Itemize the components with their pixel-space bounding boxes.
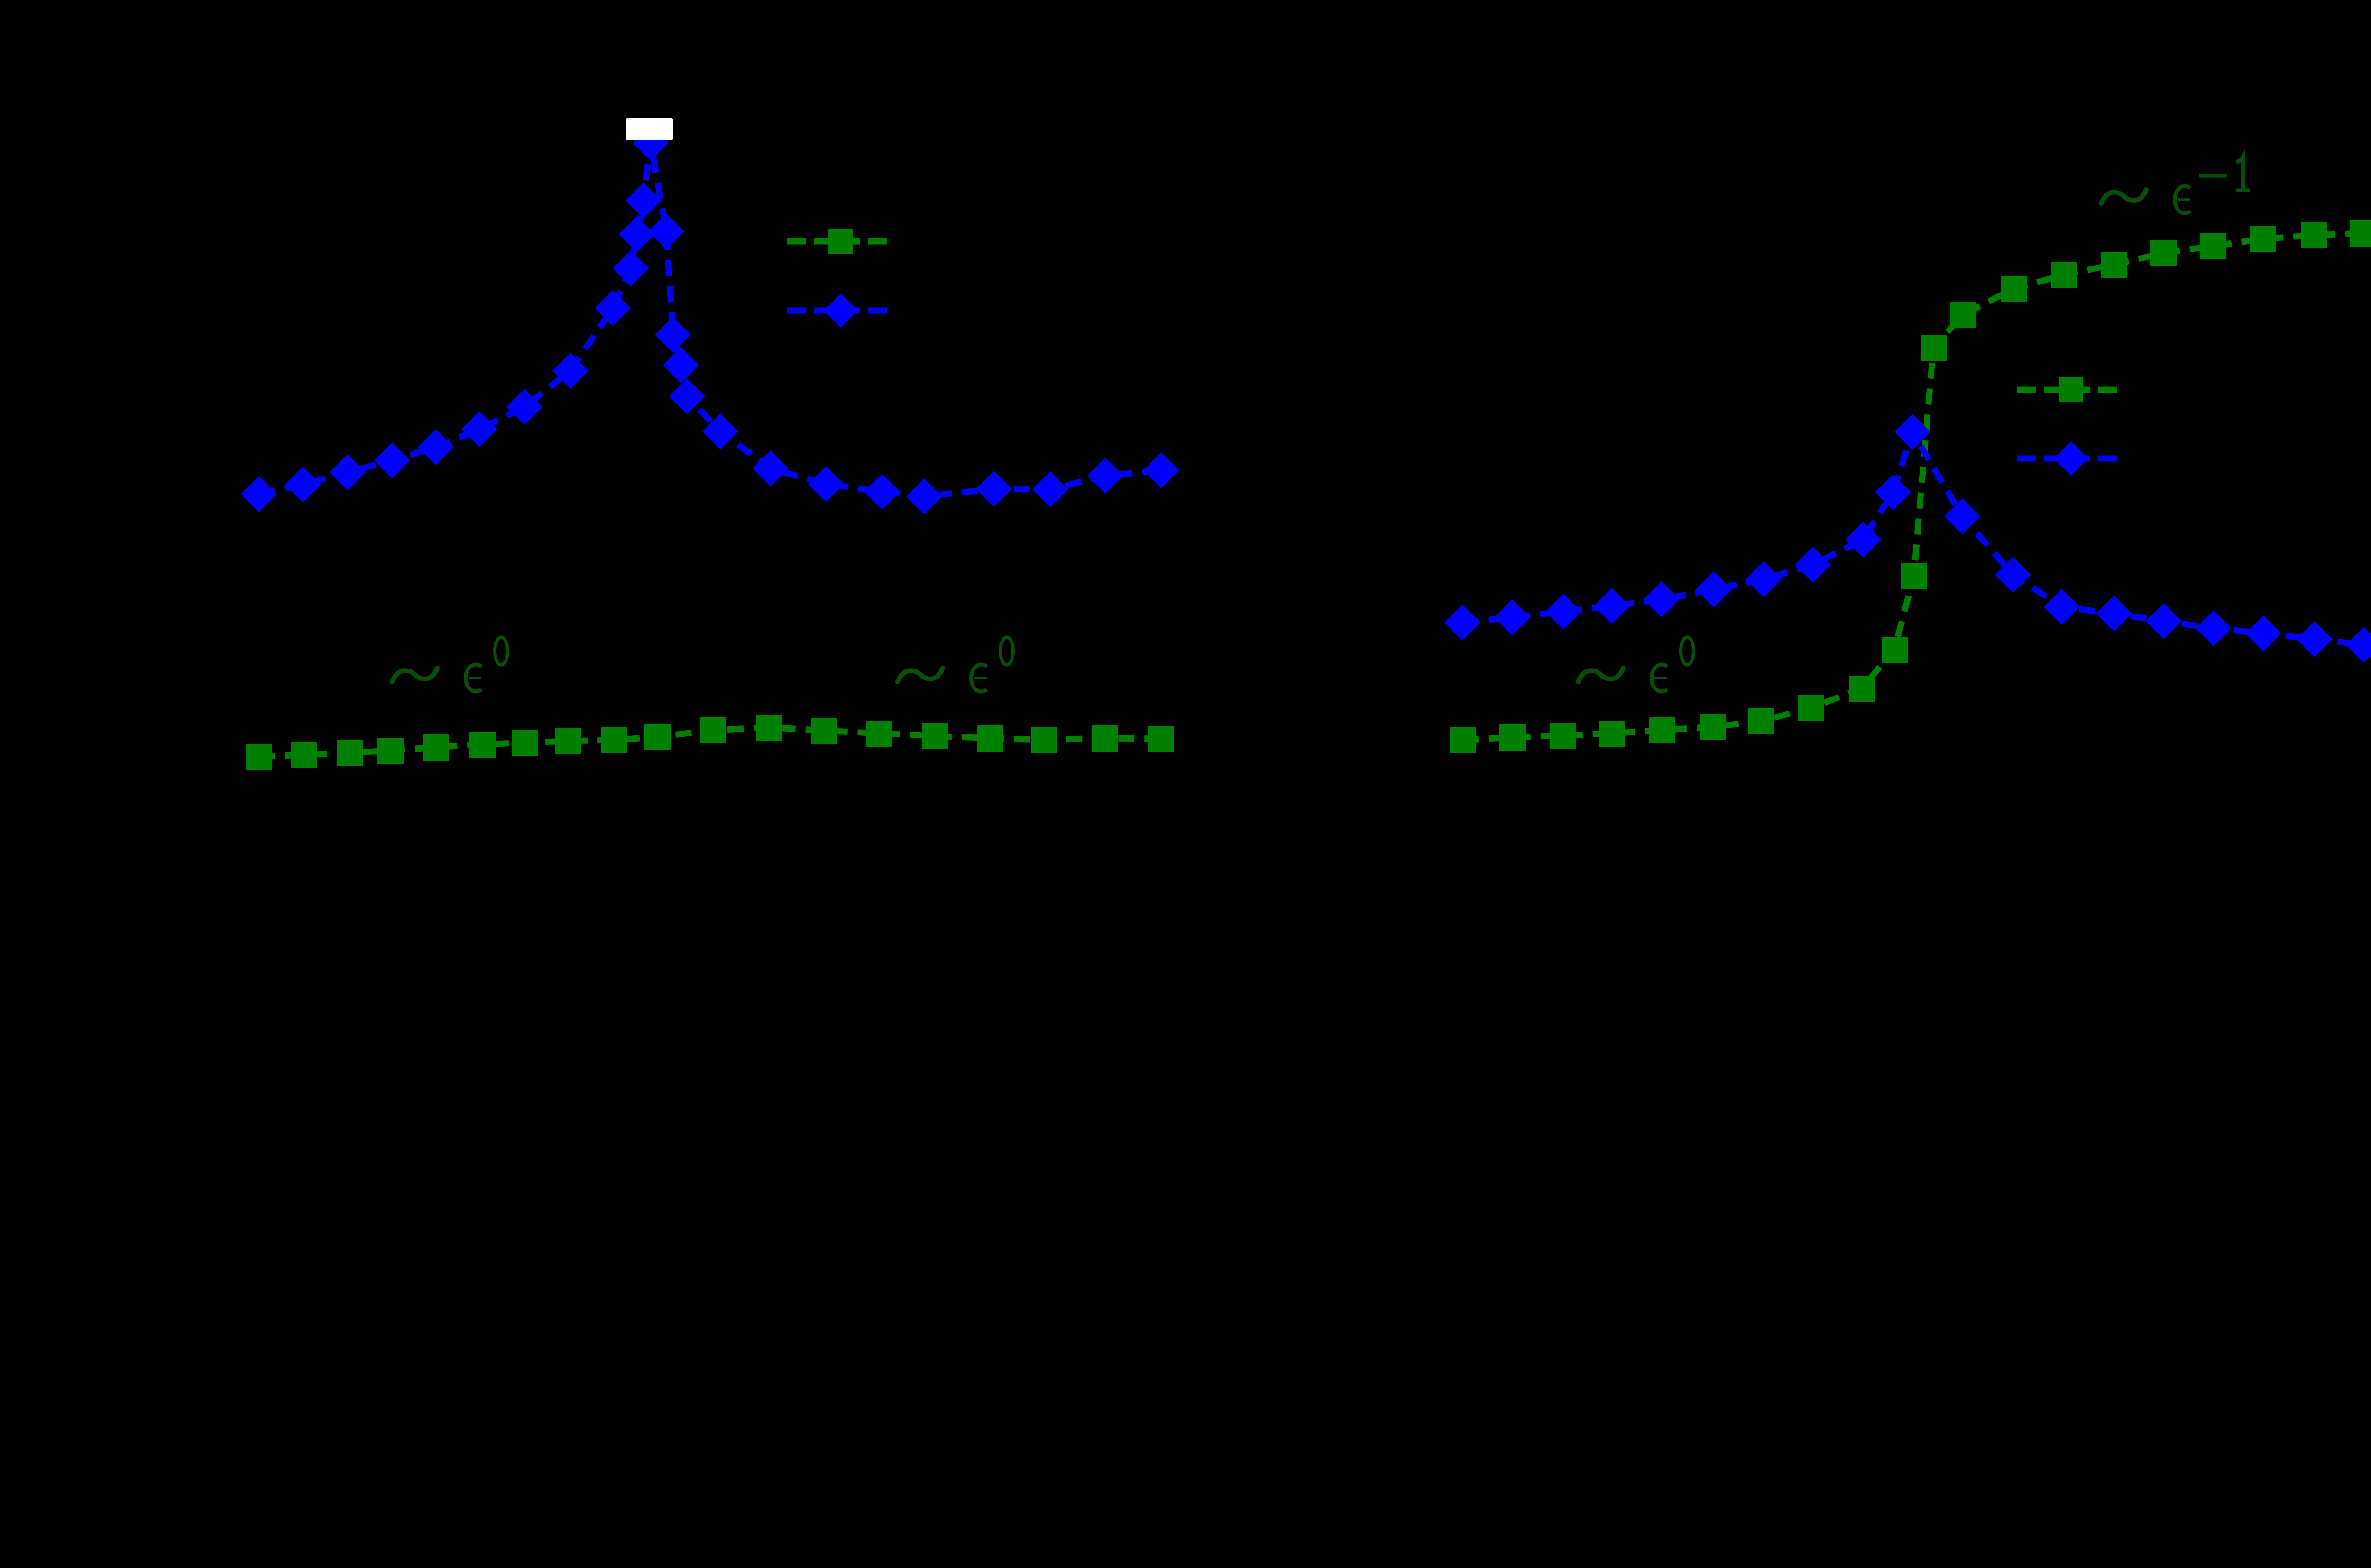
legend line (green squares series) [2017,387,2124,393]
panel a: green square markers [246,715,1174,770]
panel a: blue diamond markers [241,125,1179,514]
panel a: text ~eps^0 right [898,668,943,682]
panel a: blue curve line [259,143,1161,496]
panel a: white annotation box over peak [626,118,673,140]
panel b: text ~eps^0 [1578,668,1623,682]
legend line (blue diamonds series) [787,308,895,314]
panel b: green square markers [1450,220,2371,753]
panel a: green curve line [259,727,1161,757]
panel a: text ~eps^0 left [392,668,437,682]
legend line (blue diamonds series) [2017,456,2124,462]
panel b: green curve line [1462,233,2362,740]
panel b: blue diamond markers [1444,414,2371,663]
panel b: blue curve line [1462,432,2364,645]
panel b: text ~eps^-1 [2101,190,2146,203]
legend line (green squares series) [787,238,895,245]
